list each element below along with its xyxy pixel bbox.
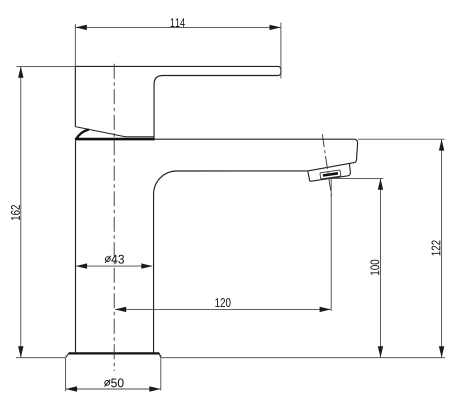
dim 122 arrow bottom — [439, 346, 444, 357]
dim diameter-50 arrow right — [149, 386, 160, 391]
aerator housing — [308, 164, 351, 181]
handle front lip curve — [76, 130, 89, 140]
mounting surface line right — [161, 357, 445, 359]
dim 100 arrow bottom — [378, 346, 383, 357]
dim diameter-43 arrow left — [76, 263, 87, 268]
dim 120 label — [215, 298, 230, 307]
aerator outlet slot — [323, 172, 338, 177]
dim diameter-50 label — [111, 378, 123, 387]
dim 162 label — [11, 205, 20, 220]
dim 122 label — [432, 240, 441, 255]
dim diameter-50 line — [66, 388, 160, 390]
faucet handle outline — [75, 66, 281, 138]
dim 162 extension line top — [17, 65, 76, 67]
dim 100 extension line — [331, 177, 383, 179]
dim diameter-50 arrow left — [66, 386, 77, 391]
mounting surface line left — [16, 357, 65, 359]
dim 120 arrow right — [320, 307, 331, 312]
dim 100 label — [370, 260, 379, 275]
dim 114 arrow right — [270, 25, 281, 30]
dim 114 label — [171, 18, 185, 27]
dim 100 arrow top — [378, 179, 383, 190]
dim 120 arrow left — [115, 307, 126, 312]
dim 122 arrow top — [439, 139, 444, 150]
dim 122 line — [441, 140, 443, 358]
dim diameter-43 arrow right — [141, 263, 152, 268]
faucet body and spout outline — [154, 139, 358, 352]
body column left edge — [75, 141, 77, 353]
dim 162 line — [20, 67, 22, 358]
spout tip centerline — [322, 134, 332, 198]
dim 114 extension line left — [74, 24, 76, 66]
dim 114 line — [76, 26, 281, 28]
dim diameter-50 symbol — [104, 380, 110, 387]
base flange top — [69, 352, 159, 354]
dim 122 extension line top — [358, 138, 445, 140]
dim 162 arrow bottom — [18, 346, 23, 357]
column centerline — [113, 64, 115, 371]
aerator insert outline — [320, 170, 341, 179]
dim diameter-43 label — [111, 255, 124, 264]
dim diameter-43 line — [76, 265, 152, 267]
cartridge collar thick line — [75, 138, 155, 141]
dim diameter-43 symbol — [105, 256, 111, 263]
dim 162 arrow top — [18, 66, 23, 77]
base flange right chamfer — [159, 353, 161, 358]
dim diameter-50 extension line right — [160, 355, 162, 391]
dim 120 line — [115, 308, 330, 310]
dim 114 arrow left — [76, 25, 87, 30]
base flange left chamfer — [66, 353, 70, 358]
dim diameter-50 extension line left — [65, 358, 67, 392]
dim 114 extension line right — [280, 23, 282, 79]
dim 100 line — [380, 179, 382, 357]
handle bottom slant edge — [75, 127, 154, 137]
dim 120 aerator drop line — [330, 179, 332, 311]
